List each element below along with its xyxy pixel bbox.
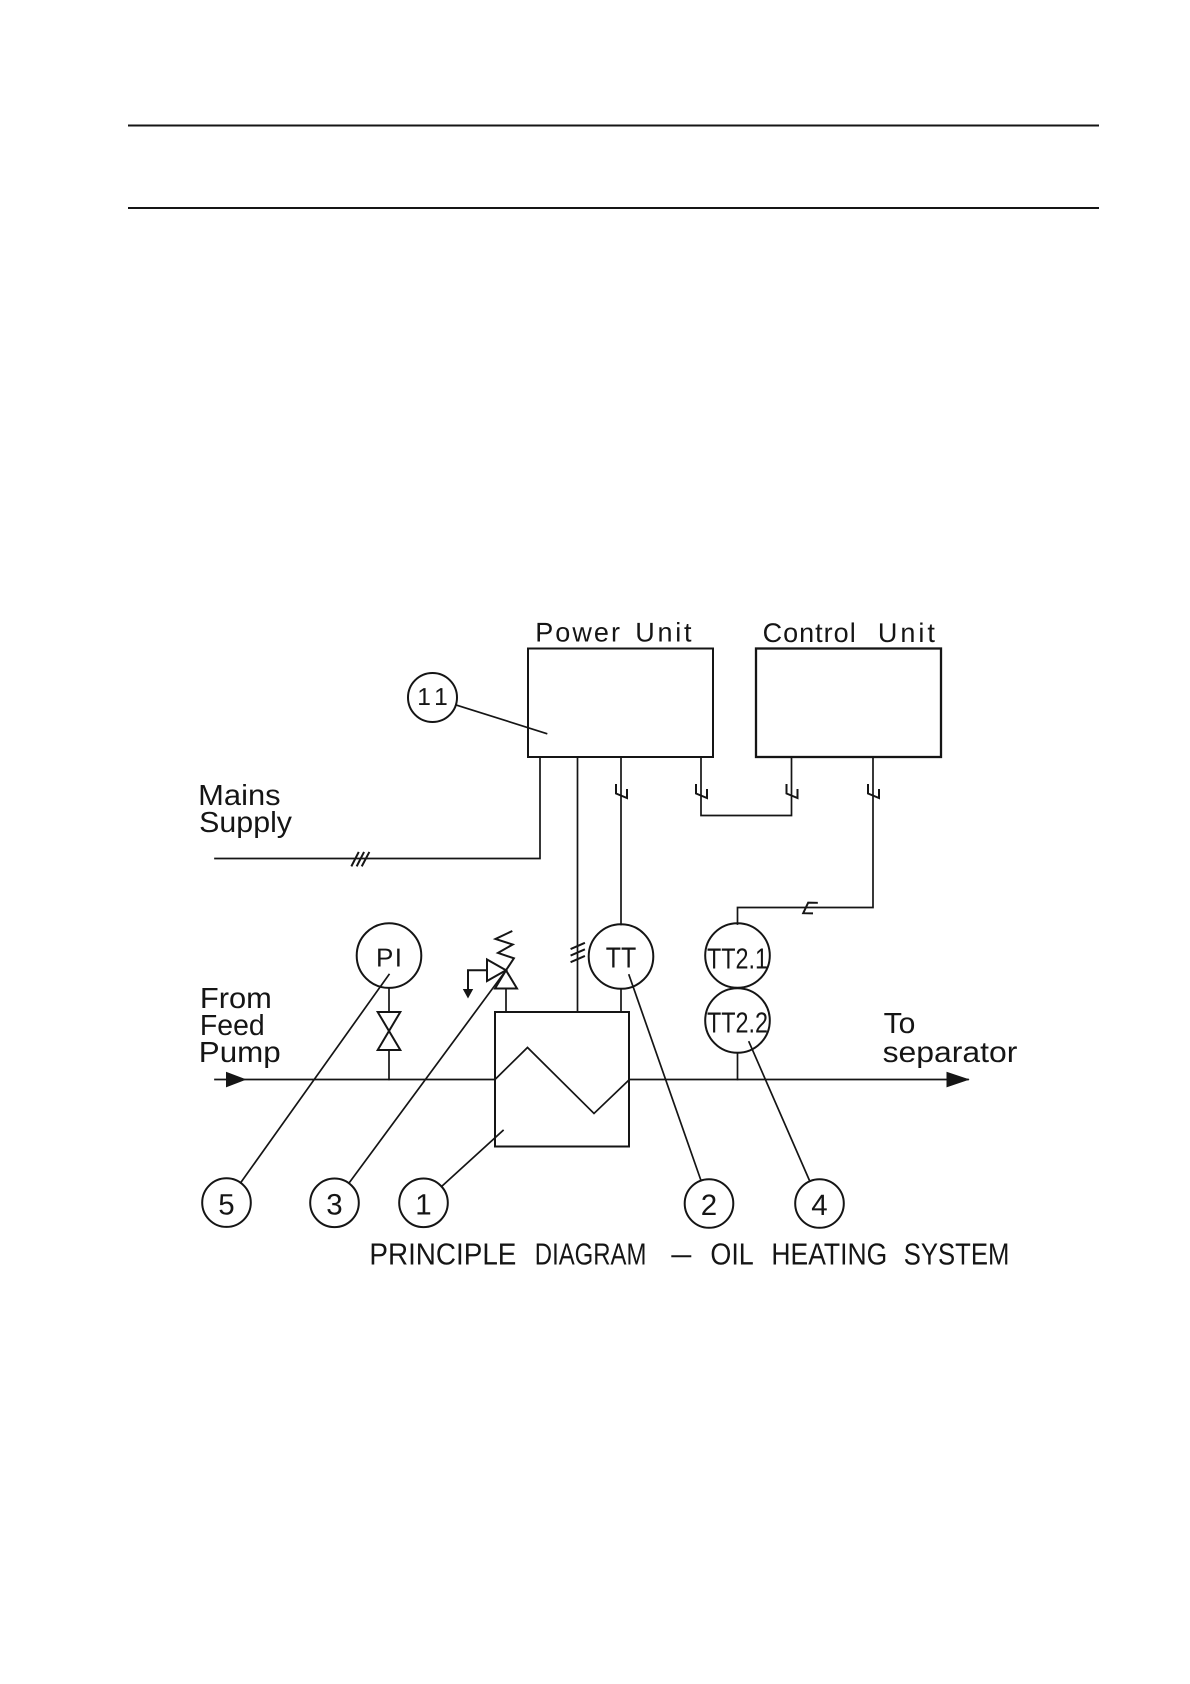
balloon 5	[202, 1178, 251, 1227]
wire TT2.2 to pipe	[737, 1053, 739, 1080]
leader TT2.2 to balloon 4	[749, 1042, 810, 1181]
leader TT to balloon 2	[629, 975, 701, 1181]
svg-text:OIL: OIL	[710, 1238, 753, 1272]
box U1 power unit	[528, 649, 713, 758]
label Mains Supply	[198, 780, 292, 839]
connector hook on TT wire	[616, 785, 627, 798]
PI stem upper	[388, 988, 390, 1012]
header rule top	[129, 125, 1098, 127]
screened cable mark	[803, 903, 817, 914]
leader heat exchanger to balloon 1	[442, 1131, 504, 1187]
leader relief valve to balloon 3	[349, 970, 506, 1183]
svg-text:11: 11	[417, 684, 448, 711]
pipe inlet segment	[215, 1079, 495, 1081]
balloon 3	[310, 1179, 359, 1228]
svg-text:TT2.2: TT2.2	[707, 1008, 768, 1040]
wire power unit pin2 to heater (3-phase)	[577, 757, 579, 1012]
wire power unit pin1 to mains	[215, 757, 540, 859]
box U2 control unit	[756, 649, 941, 758]
wire power unit pin4 to control unit pin1	[701, 757, 792, 816]
svg-text:4: 4	[811, 1189, 827, 1222]
heat exchanger E1 body	[495, 1012, 629, 1147]
svg-text:Power: Power	[535, 618, 620, 648]
svg-text:2: 2	[701, 1189, 717, 1222]
svg-text:separator: separator	[883, 1037, 1018, 1069]
connector hook on power pin4	[696, 785, 707, 798]
label Power Unit	[535, 618, 692, 648]
PI stem lower	[388, 1050, 390, 1080]
balloon 1	[399, 1179, 448, 1228]
balloon 4	[795, 1179, 844, 1228]
label From Feed Pump	[199, 983, 281, 1069]
svg-text:Supply: Supply	[199, 807, 292, 839]
label Control Unit	[763, 618, 936, 648]
svg-text:Unit: Unit	[635, 618, 692, 648]
svg-text:Unit: Unit	[878, 618, 935, 648]
relief valve V2 body	[487, 960, 517, 989]
svg-text:TT2.1: TT2.1	[707, 944, 768, 976]
svg-text:1: 1	[415, 1188, 431, 1221]
label To separator	[883, 1008, 1018, 1069]
svg-text:Pump: Pump	[199, 1037, 281, 1069]
isolating valve V1	[378, 1012, 401, 1050]
svg-text:PI: PI	[376, 942, 402, 972]
svg-text:Control: Control	[763, 618, 856, 648]
heater cable 3-phase slashes	[572, 943, 585, 962]
balloon 2	[685, 1179, 734, 1228]
instrument PI	[357, 923, 422, 988]
heat exchanger coil	[495, 1048, 629, 1114]
wire control unit pin2 to TT2.1	[738, 757, 874, 924]
connector hook on control pin1	[787, 785, 798, 798]
title dash	[672, 1255, 690, 1257]
relief valve vent arrow	[463, 989, 473, 999]
leader PI to balloon 5	[241, 975, 389, 1183]
relief valve vent line	[468, 970, 487, 990]
wire power unit pin3 to TT	[620, 757, 622, 925]
pipe inlet flow arrow	[226, 1072, 247, 1088]
svg-text:5: 5	[218, 1188, 234, 1221]
svg-text:SYSTEM: SYSTEM	[904, 1238, 1010, 1272]
svg-text:DIAGRAM: DIAGRAM	[535, 1238, 647, 1272]
relief valve spring	[496, 931, 514, 970]
svg-text:HEATING: HEATING	[771, 1238, 887, 1272]
svg-text:TT: TT	[606, 943, 637, 975]
mains 3-phase slashes	[352, 853, 369, 866]
svg-text:PRINCIPLE: PRINCIPLE	[369, 1238, 516, 1272]
svg-text:3: 3	[326, 1188, 342, 1221]
leader from balloon 11 to power unit	[456, 705, 547, 734]
pipe outlet flow arrow	[947, 1072, 970, 1088]
relief valve stem	[505, 989, 507, 1013]
svg-text:To: To	[884, 1008, 916, 1040]
instrument TT2.2	[705, 988, 770, 1053]
connector hook on control pin2	[868, 785, 879, 798]
instrument TT	[589, 924, 654, 989]
wire TT to heater top	[620, 989, 622, 1012]
balloon 11	[408, 673, 457, 722]
header rule bottom	[129, 207, 1098, 209]
instrument TT2.1	[705, 923, 770, 988]
pipe outlet segment	[629, 1079, 968, 1081]
title text	[369, 1238, 1009, 1272]
